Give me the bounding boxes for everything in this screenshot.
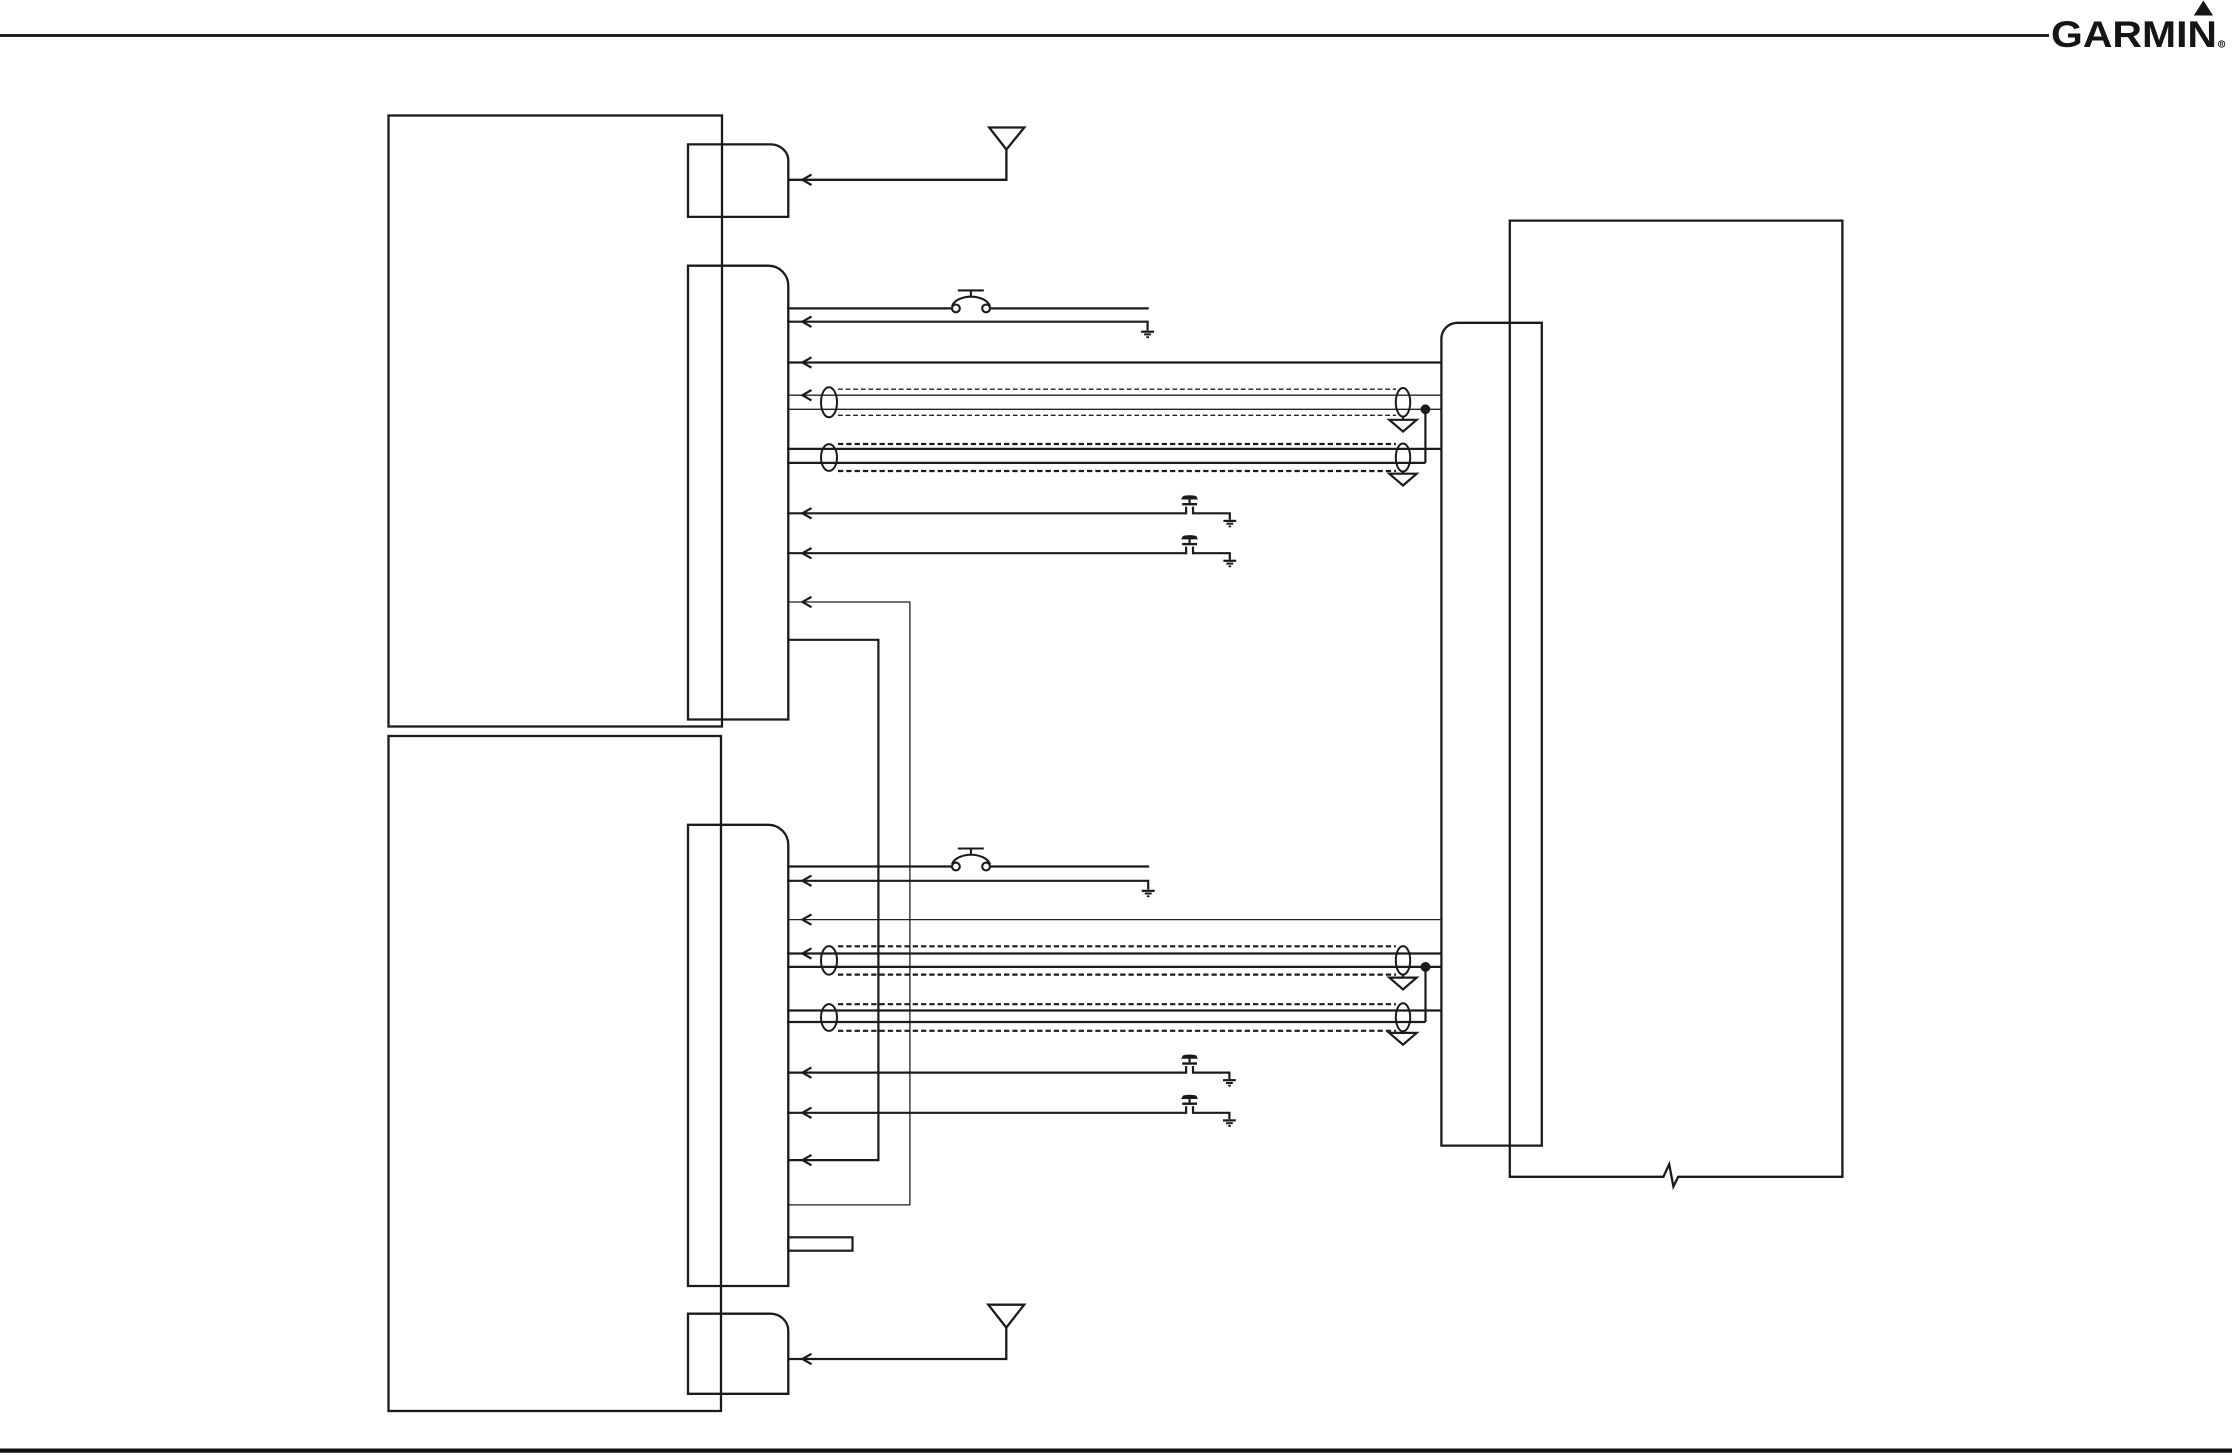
wire W4-A (mic hi) <box>787 1009 1441 1011</box>
shield outline W2 (dashed) <box>838 443 1396 445</box>
arrow into P1 (audio hi) <box>802 390 811 400</box>
wire: C2 to ground <box>1193 553 1230 560</box>
shield ellipse W2 right <box>1396 444 1410 472</box>
connector P2 (U2 main connector) <box>688 825 788 1286</box>
ground G4 (airframe ground, small) <box>1142 891 1155 897</box>
shield drain stub W3 <box>1402 975 1404 978</box>
footer rule <box>0 1448 2232 1452</box>
ground tab on connector P2 <box>788 1237 852 1250</box>
connector P3 (U3 main connector) <box>1441 323 1541 1146</box>
shield ground arrow W2 <box>1389 474 1416 486</box>
ground G3 (C2 ground) <box>1223 561 1236 567</box>
wire: C4 to ground <box>1193 1113 1229 1120</box>
feed-thru capacitor C3 <box>1182 1055 1197 1074</box>
connector P101 (U1 antenna connector) <box>688 144 788 217</box>
ground G6 (C4 ground) <box>1223 1120 1236 1126</box>
svg-text:R: R <box>2220 42 2224 48</box>
shield ellipse W3 right <box>1396 946 1410 975</box>
ground G5 (C3 ground) <box>1223 1080 1236 1086</box>
connector P201 (U2 antenna connector) <box>688 1314 788 1394</box>
shield drain stub W1 <box>1402 417 1404 420</box>
wire W4-B (mic lo) <box>787 1021 1426 1023</box>
wire: U2 serial data in from U3 (thin) <box>787 919 1441 921</box>
shield drain stub W4 <box>1402 1031 1404 1033</box>
arrow into P1 (tune select) <box>802 508 811 518</box>
Garmin logo <box>2051 1 2225 56</box>
shield ellipse W1 right <box>1396 388 1410 417</box>
wire: U1 tune select (to feed-thru cap C1) <box>787 512 1186 514</box>
arrow into P2 (audio hi) <box>802 948 811 958</box>
shielded pair W3 (U2 audio hi/lo) <box>787 946 1441 989</box>
shield ground arrow W3 <box>1389 978 1416 990</box>
arrow into P201 (antenna A2 coax) <box>802 1354 811 1364</box>
wire: crossover U2 to U1 (thin net) <box>787 602 910 1205</box>
circuit breaker CB1 <box>952 290 990 312</box>
shield ellipse W4 right <box>1396 1003 1410 1031</box>
wire: crossover U1 to U2 (thick net) <box>787 640 878 1160</box>
shield ellipse W3 left <box>821 946 837 975</box>
arrow into P2 (tune select) <box>802 1067 811 1077</box>
feed-thru capacitor C2 <box>1182 536 1197 555</box>
wire W2-A (mic hi) <box>787 448 1441 450</box>
wire: audio lo tie J2 to W4-B <box>1424 967 1426 1022</box>
arrow into P2 (serial data) <box>802 914 811 924</box>
shield outline W1 (dashed) <box>838 388 1396 390</box>
svg-text:GARMIN: GARMIN <box>2051 14 2217 55</box>
shielded pair W2 (U1 mic audio hi/lo) <box>787 444 1441 486</box>
wire: U2 power ground return <box>787 881 1148 890</box>
junction dot J1 (audio lo tie) <box>1421 404 1431 414</box>
arrow into P2 (power ground) <box>802 876 811 886</box>
shield outline W3 (dashed) <box>838 945 1396 947</box>
feed-thru capacitor C1 <box>1182 496 1197 515</box>
shield ellipse W1 left <box>821 387 837 417</box>
wire W2-B (mic lo) <box>787 462 1425 464</box>
wire: U2 tune select (to feed-thru cap C3) <box>787 1071 1186 1073</box>
junction dot J2 (audio lo tie) <box>1421 962 1431 972</box>
wire: U1 power ground return <box>787 322 1148 331</box>
arrow into P1 (crossover in) <box>802 597 811 607</box>
circuit breaker CB2 <box>952 849 990 871</box>
shielded pair W1 (U1 audio hi/lo, thin) <box>787 387 1441 431</box>
unit U3 box (right LRU, audio panel) <box>1510 221 1843 1187</box>
wire: U1 remote transfer (to feed-thru cap C2) <box>787 552 1186 554</box>
wire: U1 power input (to circuit breaker) <box>787 307 952 309</box>
antenna A1 (top COM antenna) <box>788 128 1024 180</box>
arrow into P1 (serial data) <box>802 357 811 367</box>
arrow into P2 (crossover in) <box>802 1155 811 1165</box>
arrow into P2 (remote transfer) <box>802 1108 811 1118</box>
wire W1-A (audio hi) <box>787 394 1441 396</box>
wire: U2 remote transfer (to feed-thru cap C4) <box>787 1112 1186 1114</box>
wire: audio lo tie J1 to W2-B <box>1424 409 1426 463</box>
wire: C3 to ground <box>1193 1073 1229 1080</box>
arrow into P1 (power ground) <box>802 317 811 327</box>
wire W3-B (audio lo) <box>787 966 1441 968</box>
arrow into P1 (remote transfer) <box>802 548 811 558</box>
ground G2 (C1 ground) <box>1223 521 1236 527</box>
antenna A2 (bottom COM antenna) <box>788 1305 1024 1359</box>
arrow into P101 (antenna A1 coax) <box>802 175 811 185</box>
connector P1 (U1 main connector) <box>688 266 788 720</box>
shield drain stub W2 <box>1402 472 1404 474</box>
shield ground arrow W1 <box>1389 420 1416 432</box>
feed-thru capacitor C4 <box>1182 1095 1197 1114</box>
unit U2 box (bottom-left LRU) <box>389 736 722 1411</box>
shield ground arrow W4 <box>1389 1033 1416 1045</box>
shield ellipse W2 left <box>821 444 837 471</box>
wire W1-B (audio lo) <box>787 408 1441 410</box>
shielded pair W4 (U2 mic audio hi/lo) <box>787 1003 1441 1044</box>
shield ellipse W4 left <box>821 1004 837 1031</box>
ground G1 (airframe ground, small) <box>1141 332 1154 338</box>
wire: C1 to ground <box>1193 513 1230 520</box>
wire W3-A (audio hi) <box>787 952 1441 954</box>
unit U1 box (top-left LRU) <box>389 116 723 727</box>
wire: breaker to bus <box>990 307 1149 309</box>
header rule <box>0 34 2049 37</box>
wire: U2 power input (to circuit breaker) <box>787 865 952 867</box>
wire: breaker CB2 to bus <box>990 865 1149 867</box>
shield outline W4 (dashed) <box>838 1003 1396 1005</box>
wire: U1 serial data in from U3 <box>787 361 1441 363</box>
